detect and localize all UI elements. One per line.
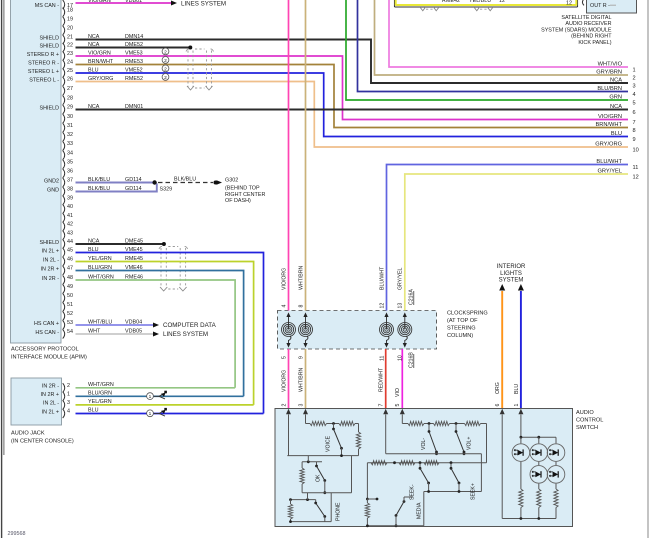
svg-text:HS CAN +: HS CAN + bbox=[34, 321, 59, 327]
svg-text:BLU/WHT: BLU/WHT bbox=[379, 266, 385, 290]
svg-text:BLU: BLU bbox=[88, 408, 99, 414]
svg-text:26: 26 bbox=[67, 77, 73, 83]
svg-text:49: 49 bbox=[67, 284, 73, 290]
svg-text:AUDIO JACK: AUDIO JACK bbox=[11, 431, 45, 437]
svg-text:STEREO L -: STEREO L - bbox=[29, 77, 59, 83]
svg-text:21: 21 bbox=[67, 35, 73, 41]
svg-text:SEEK+: SEEK+ bbox=[471, 483, 477, 500]
svg-text:AUDIO RECEIVER: AUDIO RECEIVER bbox=[565, 21, 611, 27]
svg-text:CLOCKSPRING: CLOCKSPRING bbox=[447, 311, 488, 317]
svg-text:VIO/ORG: VIO/ORG bbox=[281, 268, 287, 290]
svg-text:VIO/ORG: VIO/ORG bbox=[281, 370, 287, 392]
svg-text:11: 11 bbox=[633, 165, 639, 171]
svg-text:44: 44 bbox=[67, 239, 73, 245]
svg-text:SHIELD: SHIELD bbox=[40, 240, 60, 246]
svg-text:OF DASH): OF DASH) bbox=[225, 198, 251, 204]
svg-text:48: 48 bbox=[67, 275, 73, 281]
svg-text:SHIELD: SHIELD bbox=[40, 43, 60, 49]
svg-text:28: 28 bbox=[67, 95, 73, 101]
svg-text:35: 35 bbox=[67, 159, 73, 165]
svg-text:1: 1 bbox=[67, 392, 70, 398]
svg-text:5: 5 bbox=[395, 404, 401, 407]
svg-text:2: 2 bbox=[67, 383, 70, 389]
svg-text:RED/WHT: RED/WHT bbox=[379, 367, 385, 392]
svg-text:IN 2R -: IN 2R - bbox=[42, 384, 59, 390]
svg-text:30: 30 bbox=[67, 114, 73, 120]
svg-text:42: 42 bbox=[67, 222, 73, 228]
svg-text:LINES SYSTEM: LINES SYSTEM bbox=[181, 0, 226, 7]
svg-text:S329: S329 bbox=[160, 187, 173, 193]
svg-text:KICK PANEL): KICK PANEL) bbox=[578, 40, 611, 46]
svg-text:IN 2R +: IN 2R + bbox=[41, 392, 59, 398]
svg-text:IN 2R +: IN 2R + bbox=[41, 266, 59, 272]
svg-text:G302: G302 bbox=[225, 178, 238, 184]
svg-text:4: 4 bbox=[281, 305, 287, 308]
svg-text:VIO: VIO bbox=[395, 388, 401, 397]
svg-text:GND2: GND2 bbox=[44, 178, 59, 184]
svg-text:WHT/GRN: WHT/GRN bbox=[88, 382, 114, 388]
svg-text:STEERING: STEERING bbox=[447, 326, 476, 332]
svg-text:20: 20 bbox=[67, 26, 73, 32]
svg-text:IN 2L +: IN 2L + bbox=[42, 248, 59, 254]
svg-text:COLUMN): COLUMN) bbox=[447, 333, 473, 339]
svg-text:5: 5 bbox=[281, 356, 287, 359]
svg-text:VOL-: VOL- bbox=[421, 438, 427, 450]
svg-text:VOICE: VOICE bbox=[326, 435, 332, 452]
svg-text:MS CAN -: MS CAN - bbox=[35, 3, 59, 9]
svg-text:36: 36 bbox=[67, 169, 73, 175]
svg-text:YEL/BLU: YEL/BLU bbox=[469, 0, 491, 4]
svg-text:9: 9 bbox=[298, 356, 304, 359]
svg-text:LIGHTS: LIGHTS bbox=[500, 271, 522, 277]
svg-text:BLU/GRN: BLU/GRN bbox=[88, 391, 112, 397]
svg-text:IN 2L +: IN 2L + bbox=[42, 409, 59, 415]
svg-text:3: 3 bbox=[633, 83, 636, 89]
svg-text:45: 45 bbox=[67, 248, 73, 254]
svg-text:SHIELD: SHIELD bbox=[40, 35, 60, 41]
svg-text:RME42: RME42 bbox=[442, 0, 460, 4]
svg-text:OUT R -: OUT R - bbox=[590, 3, 610, 9]
svg-text:SYSTEM (SDARS) MODULE: SYSTEM (SDARS) MODULE bbox=[541, 27, 612, 33]
svg-text:12: 12 bbox=[379, 303, 385, 309]
svg-text:50: 50 bbox=[67, 293, 73, 299]
svg-text:ORG: ORG bbox=[495, 382, 501, 394]
svg-text:(BEHIND TOP: (BEHIND TOP bbox=[225, 186, 260, 192]
svg-text:INTERIOR: INTERIOR bbox=[497, 264, 526, 270]
svg-text:1: 1 bbox=[633, 67, 636, 73]
svg-text:6: 6 bbox=[495, 404, 501, 407]
svg-text:31: 31 bbox=[67, 123, 73, 129]
svg-text:BLK/BLU: BLK/BLU bbox=[174, 176, 196, 182]
svg-text:46: 46 bbox=[67, 257, 73, 263]
svg-text:41: 41 bbox=[67, 213, 73, 219]
svg-text:13: 13 bbox=[398, 303, 404, 309]
svg-text:299568: 299568 bbox=[8, 531, 26, 537]
svg-text:43: 43 bbox=[67, 230, 73, 236]
svg-text:YEL/GRN: YEL/GRN bbox=[88, 399, 112, 405]
svg-text:52: 52 bbox=[67, 311, 73, 317]
svg-text:2: 2 bbox=[281, 404, 287, 407]
svg-text:12: 12 bbox=[566, 1, 572, 7]
svg-text:7: 7 bbox=[633, 120, 636, 126]
svg-text:4: 4 bbox=[67, 409, 70, 415]
svg-text:OK: OK bbox=[315, 474, 321, 482]
svg-text:RIGHT CENTER: RIGHT CENTER bbox=[225, 192, 265, 198]
svg-text:12: 12 bbox=[499, 0, 505, 4]
svg-text:VOL+: VOL+ bbox=[467, 437, 473, 450]
svg-text:2: 2 bbox=[164, 49, 167, 55]
svg-text:7: 7 bbox=[379, 404, 385, 407]
svg-text:6: 6 bbox=[633, 110, 636, 116]
svg-text:CONTROL: CONTROL bbox=[576, 418, 603, 424]
svg-text:5: 5 bbox=[633, 100, 636, 106]
svg-text:STEREO L +: STEREO L + bbox=[28, 69, 59, 75]
svg-text:39: 39 bbox=[67, 195, 73, 201]
svg-text:33: 33 bbox=[67, 141, 73, 147]
svg-text:10: 10 bbox=[633, 147, 639, 153]
svg-text:25: 25 bbox=[67, 68, 73, 74]
svg-text:(BEHIND RIGHT: (BEHIND RIGHT bbox=[571, 34, 612, 40]
svg-text:8: 8 bbox=[298, 305, 304, 308]
svg-text:38: 38 bbox=[67, 187, 73, 193]
svg-text:18: 18 bbox=[67, 7, 73, 13]
svg-text:STEREO R +: STEREO R + bbox=[27, 52, 59, 58]
svg-text:1: 1 bbox=[149, 411, 152, 417]
svg-text:STEREO R -: STEREO R - bbox=[28, 60, 59, 66]
svg-text:GRY/YEL: GRY/YEL bbox=[398, 267, 404, 290]
svg-text:AUDIO: AUDIO bbox=[576, 410, 594, 416]
svg-text:ACCESSORY PROTOCOL: ACCESSORY PROTOCOL bbox=[11, 347, 79, 353]
svg-text:SHIELD: SHIELD bbox=[40, 105, 60, 111]
svg-text:2: 2 bbox=[164, 75, 167, 81]
svg-text:SEEK-: SEEK- bbox=[410, 484, 416, 500]
svg-text:2: 2 bbox=[164, 66, 167, 72]
svg-text:19: 19 bbox=[67, 16, 73, 22]
svg-text:51: 51 bbox=[67, 302, 73, 308]
svg-text:SYSTEM: SYSTEM bbox=[499, 278, 524, 284]
svg-text:LINES SYSTEM: LINES SYSTEM bbox=[163, 331, 208, 338]
svg-text:(IN CENTER CONSOLE): (IN CENTER CONSOLE) bbox=[11, 439, 74, 445]
svg-text:4: 4 bbox=[633, 92, 636, 98]
svg-text:INTERFACE MODULE (APIM): INTERFACE MODULE (APIM) bbox=[11, 355, 87, 361]
svg-text:40: 40 bbox=[67, 204, 73, 210]
svg-text:PHONE: PHONE bbox=[336, 502, 342, 521]
svg-text:COMPUTER DATA: COMPUTER DATA bbox=[163, 322, 217, 329]
svg-text:53: 53 bbox=[67, 320, 73, 326]
svg-text:47: 47 bbox=[67, 266, 73, 272]
svg-text:IN 2L -: IN 2L - bbox=[43, 401, 59, 407]
svg-text:WHT/BRN: WHT/BRN bbox=[298, 266, 304, 290]
svg-text:23: 23 bbox=[67, 51, 73, 57]
svg-text:WHT/BRN: WHT/BRN bbox=[298, 368, 304, 392]
svg-text:SATELLITE DIGITAL: SATELLITE DIGITAL bbox=[561, 15, 611, 21]
svg-text:1: 1 bbox=[514, 404, 520, 407]
svg-text:1: 1 bbox=[149, 394, 152, 400]
svg-text:8: 8 bbox=[633, 128, 636, 134]
svg-text:(AT TOP OF: (AT TOP OF bbox=[447, 318, 478, 324]
svg-text:HS CAN -: HS CAN - bbox=[35, 330, 59, 336]
svg-text:22: 22 bbox=[67, 43, 73, 49]
svg-text:11: 11 bbox=[379, 356, 385, 361]
svg-text:54: 54 bbox=[67, 329, 73, 335]
svg-text:3: 3 bbox=[67, 400, 70, 406]
svg-text:29: 29 bbox=[67, 105, 73, 111]
svg-text:9: 9 bbox=[633, 137, 636, 143]
svg-text:24: 24 bbox=[67, 60, 73, 66]
svg-text:27: 27 bbox=[67, 86, 73, 92]
svg-text:IN 2R -: IN 2R - bbox=[42, 276, 59, 282]
svg-text:32: 32 bbox=[67, 132, 73, 138]
svg-text:2: 2 bbox=[633, 75, 636, 81]
svg-text:37: 37 bbox=[67, 178, 73, 184]
svg-text:GND: GND bbox=[47, 187, 59, 193]
svg-text:IN 2L -: IN 2L - bbox=[43, 257, 59, 263]
svg-text:3: 3 bbox=[298, 404, 304, 407]
svg-text:SWITCH: SWITCH bbox=[576, 425, 598, 431]
svg-text:BLU: BLU bbox=[514, 384, 520, 394]
svg-text:34: 34 bbox=[67, 150, 73, 156]
svg-text:MEDIA: MEDIA bbox=[417, 502, 423, 519]
svg-text:12: 12 bbox=[633, 174, 639, 180]
svg-text:2: 2 bbox=[164, 58, 167, 64]
